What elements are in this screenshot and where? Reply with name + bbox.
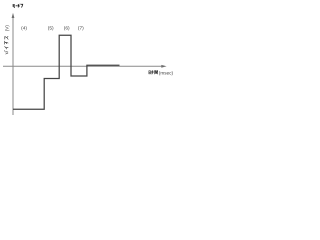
- step labels: [21, 26, 84, 32]
- svg-text:(5): (5): [48, 26, 54, 32]
- svg-text:(V): (V): [4, 25, 9, 32]
- x-axis label 時間 (msec): [149, 70, 158, 74]
- title モード7 (drawn glyphs: モ ー ド + text 7): [12, 4, 22, 8]
- バ: [4, 50, 8, 54]
- svg-text:(4): (4): [21, 26, 27, 32]
- 時: [149, 70, 154, 74]
- y-axis: [12, 13, 15, 115]
- イ: [4, 46, 8, 49]
- ア: [5, 41, 9, 45]
- svg-text:(7): (7): [78, 26, 84, 32]
- svg-text:(msec): (msec): [159, 70, 174, 75]
- 7: [21, 4, 23, 7]
- svg-text:(6): (6): [64, 26, 70, 32]
- x-axis: [3, 65, 167, 68]
- ス: [5, 36, 9, 39]
- モ: [12, 5, 15, 8]
- 間: [155, 70, 158, 74]
- y-axis label バイアス (V) rotated: [4, 25, 9, 54]
- waveform: bias steps (4)(5)(6)(7): [13, 35, 120, 109]
- ド: [18, 4, 20, 8]
- ー: [16, 5, 18, 7]
